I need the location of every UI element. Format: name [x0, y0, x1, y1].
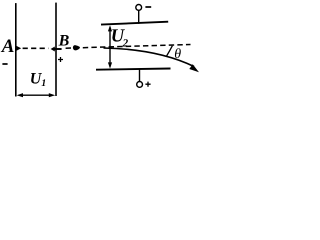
angle arc — [167, 46, 173, 56]
svg-text:B: B — [58, 33, 70, 50]
top terminal circle — [136, 5, 142, 11]
ink blob on axis near x=76 — [73, 45, 80, 50]
svg-text:1: 1 — [41, 78, 46, 89]
svg-text:A: A — [1, 36, 15, 57]
plus sign right of plate B — [58, 57, 63, 62]
top terminal lead wire — [138, 10, 140, 23]
svg-text:2: 2 — [122, 37, 129, 49]
trajectory arrowhead — [189, 64, 199, 72]
svg-text:θ: θ — [174, 47, 181, 62]
trajectory curve — [104, 48, 195, 67]
U1 double-headed arrow — [19, 94, 53, 96]
dashed axis from B to right end — [66, 45, 191, 49]
minus sign at top terminal — [145, 6, 151, 8]
bottom terminal lead wire — [139, 69, 141, 81]
U2 vertical double-headed arrow — [109, 28, 111, 67]
plus sign at bottom terminal — [145, 82, 150, 87]
bottom terminal circle — [137, 82, 143, 88]
bottom deflection plate — [96, 69, 171, 70]
top deflection plate — [101, 22, 168, 25]
plate A (left accelerating electrode) — [15, 3, 17, 96]
dashed axis A to B — [23, 47, 49, 49]
arrowhead on axis at plate A (pointing right) — [16, 46, 21, 51]
solid left-pointing arrow at plate B — [51, 47, 55, 52]
minus sign under A — [2, 63, 7, 65]
plate B (right accelerating electrode) — [55, 3, 57, 96]
